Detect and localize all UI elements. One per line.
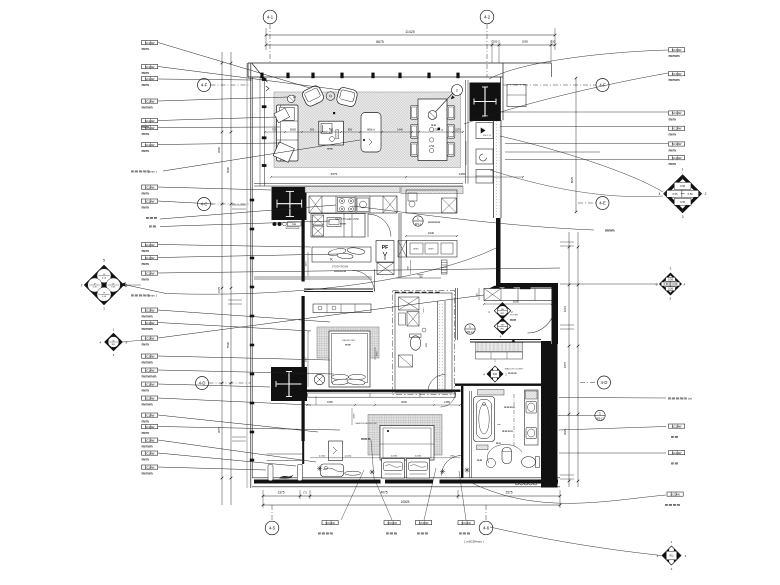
guest bath toilet xyxy=(410,336,420,350)
svg-text:mm: mm xyxy=(142,419,150,423)
svg-text:SC14W: SC14W xyxy=(145,354,155,358)
left wall mullion ticks lower xyxy=(250,199,254,202)
master bath left wall xyxy=(461,386,463,478)
svg-text:1: 1 xyxy=(469,325,471,329)
svg-text:800: 800 xyxy=(348,128,353,132)
elevation diamond left small xyxy=(105,333,123,351)
svg-text:mm: mm xyxy=(142,388,150,392)
svg-text:mm: mm xyxy=(142,191,150,195)
svg-text:5000: 5000 xyxy=(226,166,230,173)
svg-text:mmm: mmm xyxy=(142,314,154,318)
foyer dim 6290 xyxy=(484,303,552,305)
chaise lounge xyxy=(321,464,344,477)
svg-text:mm: mm xyxy=(142,249,150,253)
svg-text:800(+): 800(+) xyxy=(367,128,375,132)
left dimension lines xyxy=(221,52,223,505)
finish diamond pair foyer xyxy=(494,303,510,319)
svg-text:900: 900 xyxy=(310,128,315,132)
svg-text:11425: 11425 xyxy=(405,30,414,34)
svg-text:mm: mm xyxy=(497,424,501,426)
svg-text:mm: mm xyxy=(142,132,150,136)
column C3 bedroom xyxy=(271,367,307,401)
svg-text:0.56: 0.56 xyxy=(664,282,670,286)
svg-text:mm: mm xyxy=(142,262,150,266)
guest bath fixtures small xyxy=(399,355,413,367)
svg-text:10825: 10825 xyxy=(401,500,410,504)
pendant lamp xyxy=(428,111,437,120)
leader lines right lower xyxy=(559,397,666,400)
planter box top right xyxy=(507,85,526,107)
svg-text:( mSCDAmm ): ( mSCDAmm ) xyxy=(464,540,484,544)
svg-text:mm: mm xyxy=(431,124,437,127)
svg-text:650 1?0: 650 1?0 xyxy=(483,135,492,137)
svg-text:5500: 5500 xyxy=(226,341,230,348)
svg-text:3: 3 xyxy=(682,215,684,219)
foyer left wall xyxy=(455,288,457,340)
svg-text:mm: mm xyxy=(142,71,150,75)
svg-text:SC14W: SC14W xyxy=(145,413,155,417)
leader lines left xyxy=(158,43,310,89)
leader arrow left xyxy=(120,283,126,287)
guest bath inner chase xyxy=(437,301,439,390)
svg-text:SC14W: SC14W xyxy=(145,41,155,45)
svg-text:3175: 3175 xyxy=(217,286,221,293)
svg-text:4-5: 4-5 xyxy=(269,526,276,531)
callout W3-12 right xyxy=(595,410,605,420)
top wall mullion ticks xyxy=(260,73,263,79)
dimension line 11425 xyxy=(266,34,555,36)
vanity top box xyxy=(526,391,538,399)
svg-text:0.56: 0.56 xyxy=(672,192,678,196)
svg-text:700: 700 xyxy=(419,276,424,279)
coffee table xyxy=(319,121,344,145)
svg-text:4-E: 4-E xyxy=(599,201,606,206)
foyer closet hatch xyxy=(476,343,523,352)
study chairs leaves xyxy=(328,247,347,257)
svg-text:W3-1: W3-1 xyxy=(415,222,422,226)
bedroom2 carpet xyxy=(317,327,379,358)
foyer wall black end xyxy=(541,341,551,345)
svg-text:6: 6 xyxy=(126,284,128,288)
svg-text:mm: mm xyxy=(671,462,679,466)
svg-text:2000: 2000 xyxy=(354,413,356,419)
svg-text:R11: R11 xyxy=(669,555,674,558)
svg-text:SC14W: SC14W xyxy=(145,199,155,203)
kitchen island counter xyxy=(311,214,365,238)
svg-text:umm: umm xyxy=(428,248,433,251)
right wall black segment W4 wide xyxy=(541,344,558,488)
svg-text:SC14W: SC14W xyxy=(145,321,155,325)
bottom wall xyxy=(252,477,560,479)
right window wall with insulation xyxy=(493,120,495,218)
svg-text:mm: mm xyxy=(671,435,679,439)
svg-text:SC14W: SC14W xyxy=(145,126,155,130)
svg-text:mmm: mmm xyxy=(508,371,517,375)
foyer bench xyxy=(484,289,552,301)
dimension line 10825 xyxy=(263,504,560,506)
svg-text:SC14W: SC14W xyxy=(145,65,155,69)
living dim string xyxy=(265,131,463,133)
grid bubble 4-6 xyxy=(479,521,493,535)
bedroom2 top wall xyxy=(304,288,373,290)
svg-text:mm: mm xyxy=(142,431,150,435)
leader lines right horiz xyxy=(500,111,668,113)
svg-text:2450: 2450 xyxy=(459,172,466,176)
svg-text:mmm: mmm xyxy=(142,105,154,109)
cooktop burners xyxy=(338,198,356,212)
grid circle 4-F right xyxy=(596,79,609,92)
svg-text:1175: 1175 xyxy=(455,128,461,132)
svg-text:mm: mm xyxy=(477,459,483,462)
right wall upper xyxy=(500,77,502,120)
study desk xyxy=(312,247,371,262)
svg-text:SC14W: SC14W xyxy=(419,521,429,525)
svg-text:4: 4 xyxy=(659,192,661,196)
dining small marks xyxy=(429,127,433,131)
svg-text:0.56: 0.56 xyxy=(668,277,674,281)
right wall black segment W2 horizontal xyxy=(496,283,558,288)
svg-text:SC14W: SC14W xyxy=(145,465,155,469)
svg-text:mm: mm xyxy=(425,343,428,347)
bath mid dash line xyxy=(513,394,515,446)
svg-text:1700: 1700 xyxy=(433,128,439,132)
shaft X box xyxy=(377,263,394,275)
svg-text:SC14W: SC14W xyxy=(145,77,155,81)
svg-text:1440: 1440 xyxy=(397,128,403,132)
svg-text:mmm: mmm xyxy=(459,532,471,536)
guest bath door arc xyxy=(428,375,445,392)
master bed xyxy=(380,426,434,461)
master dim string xyxy=(307,404,460,406)
svg-text:2: 2 xyxy=(705,192,707,196)
svg-text:0.56: 0.56 xyxy=(668,287,674,291)
svg-text:SC14W: SC14W xyxy=(672,127,682,131)
toilet master xyxy=(522,457,536,468)
living right partition xyxy=(465,80,467,184)
bath bottom hatch xyxy=(477,445,489,450)
AC unit 1 xyxy=(476,123,493,139)
svg-text:SC14W: SC14W xyxy=(672,451,682,455)
svg-text:SC14W: SC14W xyxy=(145,256,155,260)
living lower dim 6675/2450 xyxy=(271,176,406,178)
grid bubble 4-1 xyxy=(263,10,277,24)
corridor door arcs master xyxy=(442,456,462,476)
dimension line 1375/4075/2575 xyxy=(263,495,560,497)
grid bubble 4-5 xyxy=(265,521,279,535)
left niche door jambs xyxy=(268,464,273,480)
svg-text:mmm: mmm xyxy=(417,532,429,536)
daybed 1 xyxy=(382,459,405,479)
svg-text:R11: R11 xyxy=(493,373,498,376)
svg-text:8675: 8675 xyxy=(376,40,384,44)
svg-text:mat: mat xyxy=(292,223,296,226)
grid circle 4-D left xyxy=(196,377,209,390)
bedroom2 bed xyxy=(329,331,370,387)
dry kitchen upper hatch xyxy=(401,187,463,194)
extension lines xyxy=(265,28,267,50)
svg-text:umm: umm xyxy=(413,248,418,251)
closet diamond xyxy=(487,366,503,382)
dining chairs right xyxy=(447,106,455,120)
leader curves mid xyxy=(166,248,496,294)
svg-text:mm: mm xyxy=(142,457,150,461)
column C1 top-right xyxy=(470,83,501,122)
svg-text:2: 2 xyxy=(81,284,83,288)
svg-text:mm: mm xyxy=(327,147,333,151)
kitchen dim 2440 xyxy=(406,235,457,237)
armchair 2 xyxy=(336,86,359,107)
leader lines right top xyxy=(489,50,668,79)
entry door arc xyxy=(528,306,555,333)
svg-text:mm: mm xyxy=(496,442,501,445)
left wall xyxy=(250,63,252,488)
left label column xyxy=(142,41,158,45)
svg-text:mm: mm xyxy=(142,205,150,209)
svg-text:W3-12: W3-12 xyxy=(596,417,604,421)
grid bubble 4-2 xyxy=(480,10,494,24)
svg-text:W3-12: W3-12 xyxy=(466,330,474,334)
dining chairs left xyxy=(410,106,418,120)
svg-text:1470: 1470 xyxy=(306,261,308,267)
svg-text:1875: 1875 xyxy=(563,361,567,368)
svg-text:mmm: mmm xyxy=(146,216,158,220)
svg-text:1: 1 xyxy=(682,168,684,172)
svg-text:4075: 4075 xyxy=(380,491,387,495)
svg-text:( mm ): ( mm ) xyxy=(148,170,157,174)
dry kitchen counter row xyxy=(407,241,458,258)
master bed leader dot xyxy=(387,430,389,432)
callout W3-12 left xyxy=(465,324,475,334)
svg-text:( mm ): ( mm ) xyxy=(148,294,157,298)
svg-text:mmmm: mmmm xyxy=(142,374,158,378)
corridor spine wall black xyxy=(302,220,305,282)
svg-text:6290: 6290 xyxy=(513,300,520,304)
svg-text:1615: 1615 xyxy=(563,305,567,312)
master nightstand marks xyxy=(317,466,322,471)
svg-text:1565: 1565 xyxy=(327,400,333,404)
svg-text:6675: 6675 xyxy=(331,172,338,176)
svg-text:mmm: mmm xyxy=(669,78,681,82)
svg-text:(m): (m) xyxy=(688,397,692,401)
tv bench xyxy=(361,113,381,153)
bathtub xyxy=(474,397,495,442)
sofa ottoman xyxy=(273,142,294,162)
dry kitchen upper row xyxy=(406,190,457,213)
svg-text:mmmmm: mmmmm xyxy=(668,397,688,401)
master bed carpet xyxy=(368,415,442,456)
svg-text:MASTER BEDROOM: MASTER BEDROOM xyxy=(355,422,376,425)
column C2 kitchen xyxy=(272,187,307,220)
bottom label 2 xyxy=(384,521,400,525)
svg-text:SC14W: SC14W xyxy=(461,521,471,525)
wardrobe dresser xyxy=(313,304,371,313)
svg-text:mmmm: mmmm xyxy=(502,430,513,433)
kitchen corridor door arc xyxy=(368,214,391,237)
column C2 legend dots xyxy=(273,222,277,226)
svg-text:(2.000): (2.000) xyxy=(345,456,352,458)
living room carpet xyxy=(274,92,461,168)
svg-text:FOYER: FOYER xyxy=(510,315,518,317)
svg-text:SC14W: SC14W xyxy=(672,424,682,428)
pedestal basin xyxy=(502,448,512,464)
svg-text:SC14W: SC14W xyxy=(145,271,155,275)
kitchen sink unit xyxy=(357,198,369,212)
svg-text:mmmm: mmmm xyxy=(428,220,441,224)
svg-text:2050: 2050 xyxy=(522,40,529,44)
grid circle 4-E right xyxy=(596,197,609,210)
svg-text:mm: mm xyxy=(142,83,150,87)
svg-text:4-6: 4-6 xyxy=(483,526,490,531)
svg-text:SC14W: SC14W xyxy=(145,185,155,189)
dining callout circle xyxy=(452,85,463,96)
bedroom2 nightstand fan xyxy=(314,374,324,384)
grid circle 4-C left xyxy=(198,198,211,211)
bath door arc xyxy=(487,444,522,463)
svg-text:SC14W: SC14W xyxy=(672,156,682,160)
svg-text:DE: DE xyxy=(501,309,505,311)
svg-text:SC14W: SC14W xyxy=(145,119,155,123)
svg-text:4-1: 4-1 xyxy=(267,15,274,20)
elevation diamond right big xyxy=(664,175,702,213)
kitchen right wall xyxy=(398,213,400,277)
svg-text:3025: 3025 xyxy=(563,428,567,435)
svg-text:750: 750 xyxy=(272,128,277,132)
svg-text:4.2090: 4.2090 xyxy=(391,456,398,458)
master desk xyxy=(329,441,343,461)
top-left corner diagonal xyxy=(252,63,268,82)
svg-text:0.56: 0.56 xyxy=(680,184,686,188)
svg-text:mmm: mmm xyxy=(142,360,154,364)
svg-text:SC14W: SC14W xyxy=(672,72,682,76)
svg-text:mm: mm xyxy=(345,343,351,347)
kitchen upper cabinet hatch xyxy=(305,187,400,193)
svg-text:SC14W: SC14W xyxy=(145,368,155,372)
svg-text:1750: 1750 xyxy=(429,145,435,148)
svg-text:mmmm: mmmm xyxy=(665,503,681,507)
svg-text:1: 1 xyxy=(417,217,419,221)
svg-text:0.56: 0.56 xyxy=(680,200,686,204)
svg-text:mm: mm xyxy=(669,133,677,137)
svg-text:1375: 1375 xyxy=(277,491,284,495)
bedroom2 door arc xyxy=(353,271,375,292)
svg-text:mm: mm xyxy=(669,148,677,152)
elevation diamond right mid xyxy=(660,273,682,295)
svg-text:mmm: mmm xyxy=(142,444,154,448)
guest bath outline dash-dot xyxy=(395,293,452,392)
svg-text:mmm: mmm xyxy=(142,327,154,331)
elevation diamond bottom right xyxy=(662,546,681,565)
right lower dimension lines xyxy=(568,232,570,487)
svg-text:3600: 3600 xyxy=(401,400,407,404)
leader lines bottom xyxy=(341,470,364,520)
leader curve to right diamond xyxy=(500,136,663,192)
grid circle 4-F left xyxy=(198,79,211,92)
right dimension line 8025 xyxy=(575,78,577,212)
master bath top wall xyxy=(455,384,541,386)
svg-text:4.1200: 4.1200 xyxy=(319,456,326,458)
svg-text:umm: umm xyxy=(423,307,425,312)
dry kitchen callout xyxy=(413,216,423,226)
bedroom2 dim xyxy=(307,331,309,387)
svg-text:mmmm: mmmm xyxy=(318,532,334,536)
svg-text:mm: mm xyxy=(142,277,150,281)
svg-text:2575: 2575 xyxy=(505,491,512,495)
svg-text:SC14W: SC14W xyxy=(145,425,155,429)
small callout dots xyxy=(333,112,335,114)
living inner wall line xyxy=(264,77,266,186)
terrace mark xyxy=(465,141,467,165)
bath corridor wall xyxy=(469,391,471,478)
svg-text:SC14W: SC14W xyxy=(387,521,397,525)
svg-text:4-F: 4-F xyxy=(201,83,208,88)
floor lamp xyxy=(287,95,295,103)
dimension line 8675 xyxy=(266,44,555,46)
svg-text:SC14W: SC14W xyxy=(145,243,155,247)
svg-text:4.2090: 4.2090 xyxy=(415,456,422,458)
right label column xyxy=(669,48,685,52)
svg-text:SC14W: SC14W xyxy=(145,143,155,147)
side table round xyxy=(326,92,335,101)
svg-text:mmm: mmm xyxy=(386,532,398,536)
svg-text:mm: mm xyxy=(142,47,150,51)
balcony edge line xyxy=(551,63,553,77)
foyer bench black block xyxy=(520,286,531,289)
svg-text:4-2: 4-2 xyxy=(484,15,491,20)
kitchen cabinet run xyxy=(309,196,397,213)
left niche shelf lines xyxy=(267,453,302,455)
svg-text:2000: 2000 xyxy=(377,351,379,357)
svg-text:735: 735 xyxy=(329,128,334,132)
svg-text:DE: DE xyxy=(501,325,505,327)
study bottom wall xyxy=(254,276,372,278)
svg-text:SC14W: SC14W xyxy=(672,111,682,115)
svg-text:2: 2 xyxy=(456,89,458,93)
left wall mullion ticks living xyxy=(262,78,267,81)
bedroom2 pillows xyxy=(332,374,349,379)
svg-text:W: W xyxy=(113,340,115,342)
svg-text:1385: 1385 xyxy=(444,400,450,404)
svg-text:mmm: mmm xyxy=(142,402,154,406)
svg-text:3000: 3000 xyxy=(217,146,221,153)
PF shaft xyxy=(376,241,394,263)
svg-text:mmm: mmm xyxy=(669,54,681,58)
bath vanity xyxy=(525,390,539,445)
svg-text:2750: 2750 xyxy=(547,417,549,423)
svg-text:SC14W: SC14W xyxy=(145,308,155,312)
svg-text:4-F: 4-F xyxy=(599,83,606,88)
guest bath vanity xyxy=(407,312,419,327)
svg-text:mm: mm xyxy=(142,149,150,153)
daybed 2 xyxy=(407,459,430,479)
right wall black segment W3 xyxy=(552,287,559,344)
svg-text:mm: mm xyxy=(510,318,517,322)
svg-text:900D: 900D xyxy=(290,128,296,132)
svg-text:SC14W: SC14W xyxy=(672,48,682,52)
svg-text:PF: PF xyxy=(382,245,388,251)
svg-text:2440: 2440 xyxy=(428,231,435,235)
bottom label 3 xyxy=(416,521,432,525)
svg-text:4-D: 4-D xyxy=(199,381,206,386)
guest bath shower xyxy=(399,297,420,310)
svg-text:SC14W: SC14W xyxy=(145,382,155,386)
bath floor beads xyxy=(515,481,519,485)
svg-text:mm: mm xyxy=(669,117,677,121)
bath top shelf hatch xyxy=(478,390,505,396)
svg-text:mmm: mmm xyxy=(605,229,615,233)
svg-text:0.56: 0.56 xyxy=(688,192,694,196)
svg-text:SC14W: SC14W xyxy=(145,99,155,103)
svg-text:0.56: 0.56 xyxy=(672,282,678,286)
